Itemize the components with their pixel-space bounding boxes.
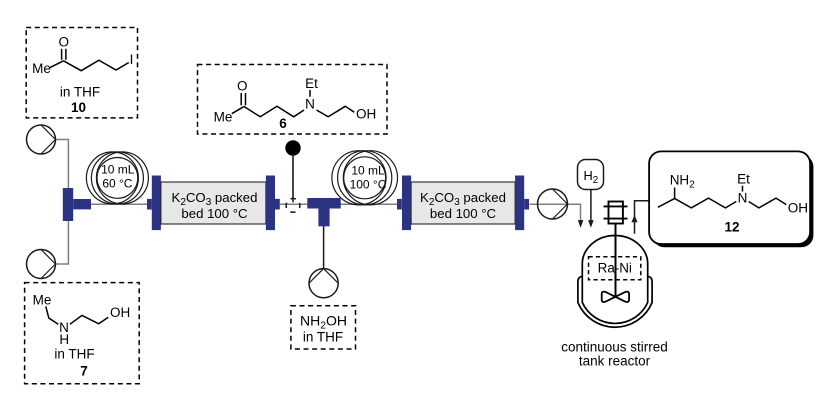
structure 10: C=O double bond	[62, 49, 66, 60]
reagent feed dot (compound 6 inlet)	[285, 140, 300, 155]
label in THF (box 10)	[60, 85, 100, 100]
svg-text:in THF: in THF	[54, 347, 94, 362]
svg-text:Et: Et	[737, 172, 750, 187]
svg-text:OH: OH	[788, 201, 808, 216]
label 6	[279, 116, 287, 131]
injection port (dashed circle)	[286, 199, 300, 213]
dashed reagent box compound 10	[26, 28, 137, 118]
Ra-Ni dashed box	[589, 257, 641, 280]
structure 12: Et label	[737, 172, 750, 187]
svg-text:bed 100 °C: bed 100 °C	[430, 206, 497, 221]
svg-text:O: O	[59, 34, 70, 49]
structure 12: NH2 label	[670, 172, 696, 190]
svg-text:60 °C: 60 °C	[102, 177, 132, 191]
svg-text:12: 12	[724, 219, 739, 234]
svg-text:OH: OH	[356, 107, 376, 122]
wire dot to injection port	[292, 154, 294, 202]
coil reactor 10 mL 60 C	[86, 152, 148, 204]
structure 12: bond N-Et	[742, 186, 744, 192]
stirrer motor coupling	[604, 202, 628, 224]
wire pump P1 to T-mixer M1	[56, 140, 69, 191]
svg-text:N: N	[738, 190, 748, 205]
svg-text:in THF: in THF	[303, 330, 343, 345]
wire reactor R1 to T-mixer M2	[280, 203, 308, 205]
structure 6: bond Me-C	[232, 107, 244, 114]
structure 7: bonds Me to N	[46, 307, 59, 325]
svg-text:Me: Me	[32, 61, 51, 76]
structure 7: N label	[59, 320, 69, 335]
packed bed reactor R1	[147, 176, 280, 231]
structure 10: bond Me-C	[50, 61, 64, 68]
pump P2	[27, 250, 56, 279]
svg-text:Et: Et	[305, 76, 318, 91]
svg-text:6: 6	[279, 116, 287, 131]
wire T-mixer M2 stem to pump P3	[323, 226, 325, 268]
svg-text:I: I	[130, 52, 134, 67]
wire pump P2 to T-mixer M1	[56, 219, 69, 264]
svg-text:bed 100 °C: bed 100 °C	[181, 206, 248, 221]
T-mixer M1	[63, 188, 91, 221]
svg-text:N: N	[305, 96, 315, 111]
wire CSTR outlet to product box with up arrow	[631, 201, 649, 234]
CSTR outer jacket	[578, 276, 652, 327]
wire H2 to CSTR with down arrow	[588, 190, 594, 228]
CSTR vessel	[582, 236, 647, 324]
svg-text:10 mL: 10 mL	[101, 162, 135, 176]
svg-text:Ra-Ni: Ra-Ni	[598, 261, 632, 276]
coil reactor 10 mL 100 C	[332, 151, 398, 205]
structure 6: Me label	[214, 110, 233, 125]
dashed reagent box compound 7	[25, 283, 140, 384]
wire T-mixer M2 to reactor R2	[341, 203, 398, 205]
impeller	[602, 292, 629, 302]
dashed reagent box NH2OH	[291, 306, 356, 349]
structure 12: OH label	[788, 201, 808, 216]
svg-text:10 mL: 10 mL	[351, 164, 385, 178]
svg-text:100 °C: 100 °C	[350, 178, 387, 192]
pump P4	[538, 189, 568, 219]
svg-text:10: 10	[71, 100, 86, 115]
structure 6: OH label	[356, 107, 376, 122]
structure 7: Me label	[33, 292, 52, 307]
structure 10: I label	[130, 52, 134, 67]
label 12	[724, 219, 739, 234]
structure 10: O label	[59, 34, 70, 49]
T-mixer M2	[307, 198, 340, 226]
product box 12 shadow	[652, 155, 813, 248]
svg-text:tank reactor: tank reactor	[579, 354, 651, 369]
wire T-mixer M1 to reactor R1	[90, 203, 147, 205]
structure 12: chain bonds	[658, 198, 736, 208]
structure 7: H label	[59, 332, 69, 347]
structure 7: bonds N to OH	[70, 315, 109, 324]
svg-text:Me: Me	[33, 292, 52, 307]
caption continuous stirred tank reactor	[561, 339, 668, 368]
structure 6: Et label	[305, 76, 318, 91]
svg-text:OH: OH	[110, 305, 130, 320]
pump P1	[27, 125, 56, 154]
structure 10: chain bonds	[64, 60, 129, 70]
pump P3 (NH2OH feed)	[309, 269, 338, 298]
structure 6: bonds N to OH	[317, 106, 355, 117]
svg-text:in THF: in THF	[60, 85, 100, 100]
structure 6: chain bonds to N	[244, 106, 304, 117]
structure 12: bonds N to OH	[749, 198, 787, 208]
svg-text:Me: Me	[214, 110, 233, 125]
label 10	[71, 100, 86, 115]
product box 12	[649, 151, 810, 244]
structure 6: C=O double bond	[241, 93, 245, 105]
structure 6: N label	[305, 96, 315, 111]
structure 7: OH label	[110, 305, 130, 320]
structure 12: bond C-NH2	[674, 188, 676, 199]
svg-text:O: O	[237, 79, 248, 94]
stirrer shaft	[615, 224, 617, 297]
svg-text:7: 7	[80, 364, 88, 379]
wire reactor R2 through pump P4 to CSTR with down arrow	[529, 204, 583, 227]
structure 6: O label	[237, 79, 248, 94]
structure 6: bond N-Et	[309, 90, 311, 97]
svg-text:continuous stirred: continuous stirred	[561, 339, 668, 354]
dashed reagent box compound 6	[198, 65, 388, 135]
packed bed reactor R2	[397, 176, 529, 231]
label 7	[80, 364, 88, 379]
H2 gas box	[578, 160, 604, 190]
label in THF (box 7)	[54, 347, 94, 362]
structure 12: N label	[738, 190, 748, 205]
svg-text:H: H	[59, 332, 69, 347]
structure 10: Me label	[32, 61, 51, 76]
